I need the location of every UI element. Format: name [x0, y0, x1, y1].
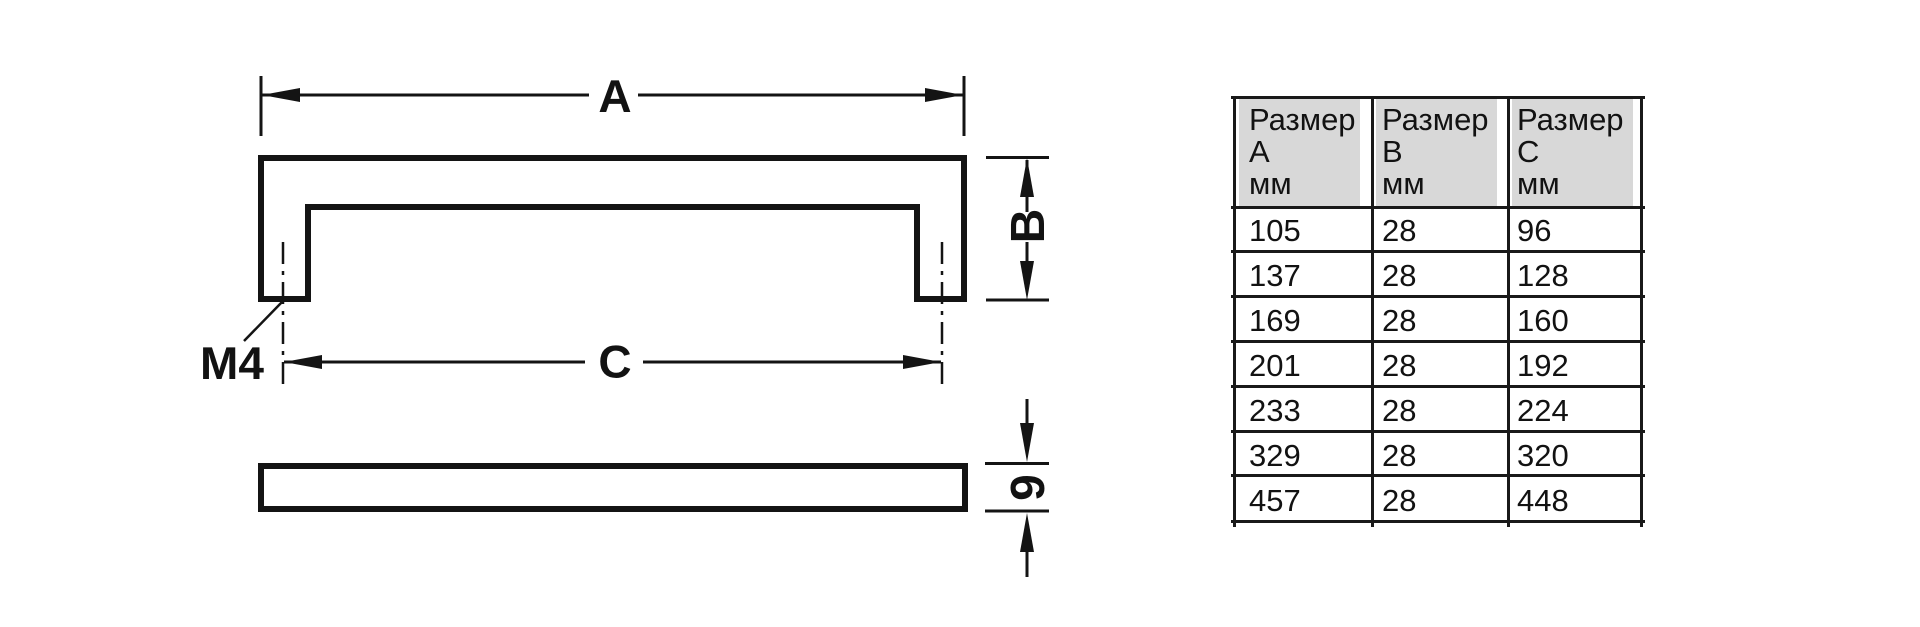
table vertical border 2: [1371, 96, 1374, 527]
table vertical border 1: [1233, 96, 1236, 527]
dim 9 lower arrow line: [1026, 549, 1029, 577]
dim B upper arrow line: [1026, 160, 1029, 212]
data row 2: [1249, 260, 1301, 292]
handle bar profile rectangle: [261, 466, 965, 509]
dim A right arrowhead: [925, 88, 963, 102]
table bottom border: [1231, 520, 1645, 523]
header text column C: [1517, 104, 1624, 200]
M4 leader line: [244, 302, 282, 341]
table top border: [1231, 96, 1645, 99]
dim 9 top tick: [985, 462, 1049, 465]
dim B lower arrow line: [1026, 242, 1029, 262]
right screw hole centerline: [941, 242, 944, 389]
data row 3: [1249, 305, 1301, 337]
dim 9 bottom tick: [985, 510, 1049, 513]
svg-text:A: A: [598, 70, 631, 122]
table row line 4: [1231, 385, 1645, 388]
dim A left arrowhead: [262, 88, 300, 102]
dim A line right segment: [638, 94, 964, 97]
table row line 5: [1231, 430, 1645, 433]
header text column A: [1249, 104, 1356, 200]
data row 7: [1249, 485, 1301, 517]
table row line 1: [1231, 250, 1645, 253]
table row line 2: [1231, 295, 1645, 298]
dim A left extension tick: [260, 76, 263, 136]
svg-text:9: 9: [1002, 474, 1055, 501]
header text column B: [1382, 104, 1489, 200]
table header cell fill A: [1239, 99, 1360, 206]
table vertical border 4: [1640, 96, 1643, 527]
dim C left arrowhead: [284, 355, 322, 369]
dim C line right segment: [643, 361, 941, 364]
dim C line left segment: [284, 361, 585, 364]
data row 5: [1249, 395, 1301, 427]
table row line 3: [1231, 340, 1645, 343]
dim A right extension tick: [963, 76, 966, 136]
handle outline: [261, 158, 964, 299]
left screw hole centerline: [282, 242, 285, 389]
dim B bottom tick: [986, 299, 1049, 302]
table header separator: [1231, 206, 1645, 209]
dim C right arrowhead: [903, 355, 941, 369]
dim 9 upper arrow line: [1026, 399, 1029, 426]
dim 9 lower arrowhead: [1020, 513, 1034, 552]
table header cell fill B: [1376, 99, 1497, 206]
data row 4: [1249, 350, 1301, 382]
table header cell fill C: [1512, 99, 1633, 206]
data row 6: [1249, 440, 1301, 472]
dim B upper arrowhead: [1020, 158, 1034, 197]
table row line 6: [1231, 474, 1645, 477]
svg-text:M4: M4: [200, 337, 264, 389]
svg-text:B: B: [1002, 209, 1055, 244]
table vertical border 3: [1507, 96, 1510, 527]
data row 1: [1249, 215, 1301, 247]
dim B lower arrowhead: [1020, 261, 1034, 300]
dim 9 upper arrowhead: [1020, 423, 1034, 462]
dim B top tick: [986, 156, 1049, 159]
svg-text:C: C: [598, 336, 631, 388]
dim A line left segment: [261, 94, 589, 97]
